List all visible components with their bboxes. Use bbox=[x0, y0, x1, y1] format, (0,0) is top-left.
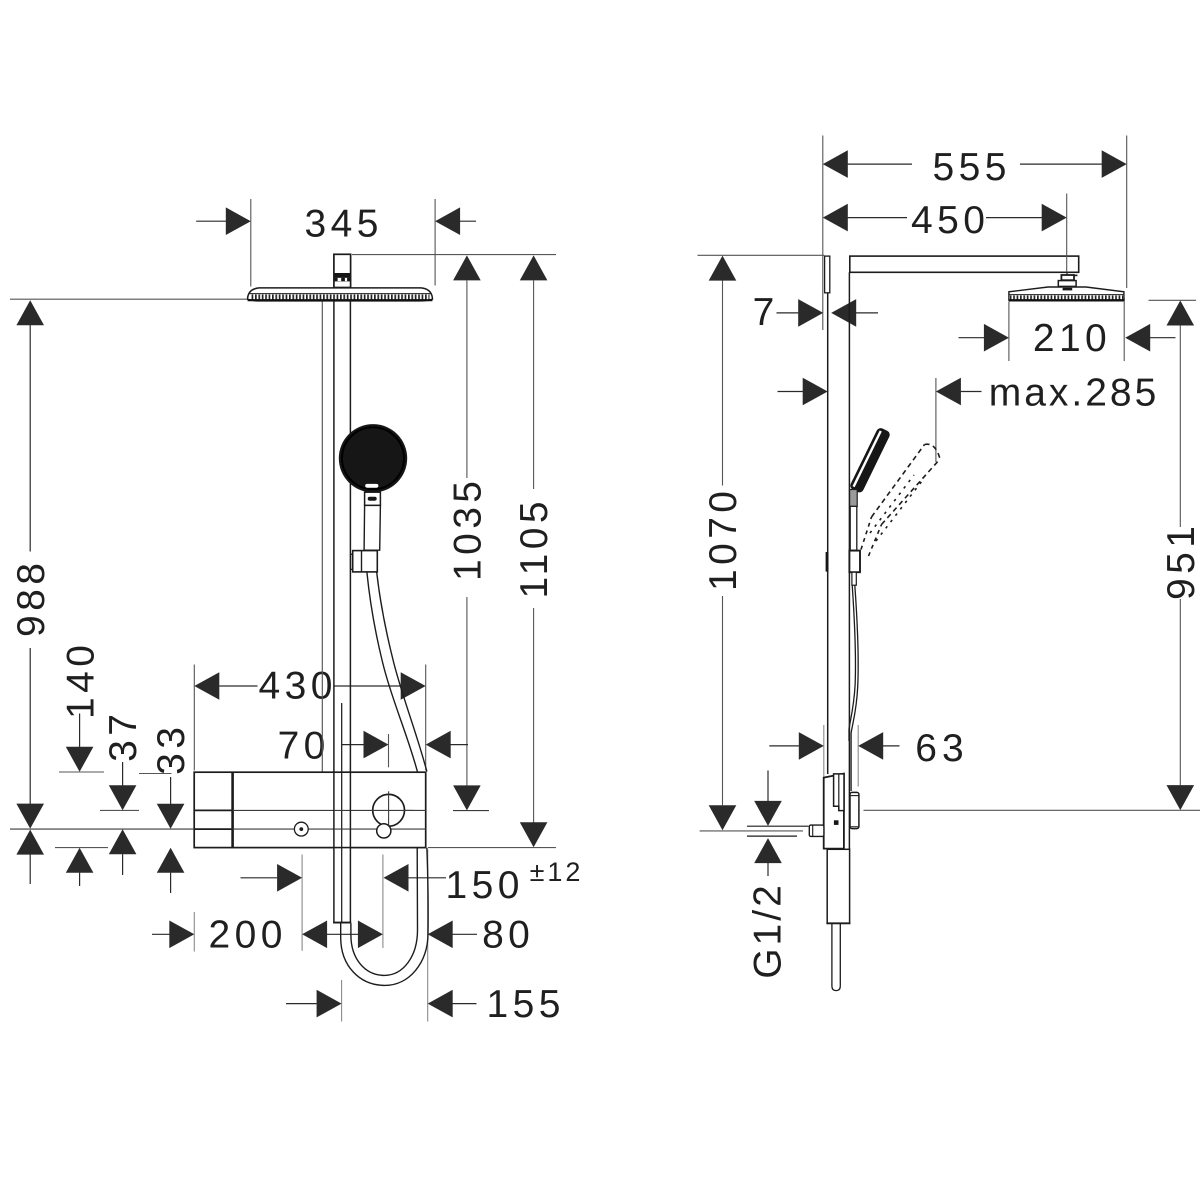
svg-text:150: 150 bbox=[446, 864, 524, 907]
svg-text:63: 63 bbox=[915, 727, 968, 770]
svg-text:±12: ±12 bbox=[530, 857, 584, 887]
svg-text:G1/2: G1/2 bbox=[747, 882, 790, 979]
svg-text:1035: 1035 bbox=[447, 477, 490, 581]
svg-text:555: 555 bbox=[933, 146, 1011, 189]
svg-text:200: 200 bbox=[209, 914, 287, 957]
svg-text:430: 430 bbox=[259, 665, 337, 708]
svg-text:max.285: max.285 bbox=[989, 372, 1160, 415]
svg-text:140: 140 bbox=[60, 641, 103, 719]
svg-text:450: 450 bbox=[911, 199, 989, 242]
svg-text:155: 155 bbox=[487, 983, 565, 1026]
svg-text:210: 210 bbox=[1033, 317, 1111, 360]
svg-text:7: 7 bbox=[753, 291, 775, 334]
svg-text:345: 345 bbox=[305, 203, 383, 246]
svg-text:1105: 1105 bbox=[513, 497, 556, 598]
svg-text:33: 33 bbox=[150, 723, 193, 775]
svg-text:951: 951 bbox=[1160, 522, 1200, 600]
svg-text:1070: 1070 bbox=[702, 487, 745, 591]
svg-text:80: 80 bbox=[482, 914, 534, 957]
svg-text:988: 988 bbox=[10, 559, 53, 637]
svg-text:37: 37 bbox=[102, 710, 145, 762]
